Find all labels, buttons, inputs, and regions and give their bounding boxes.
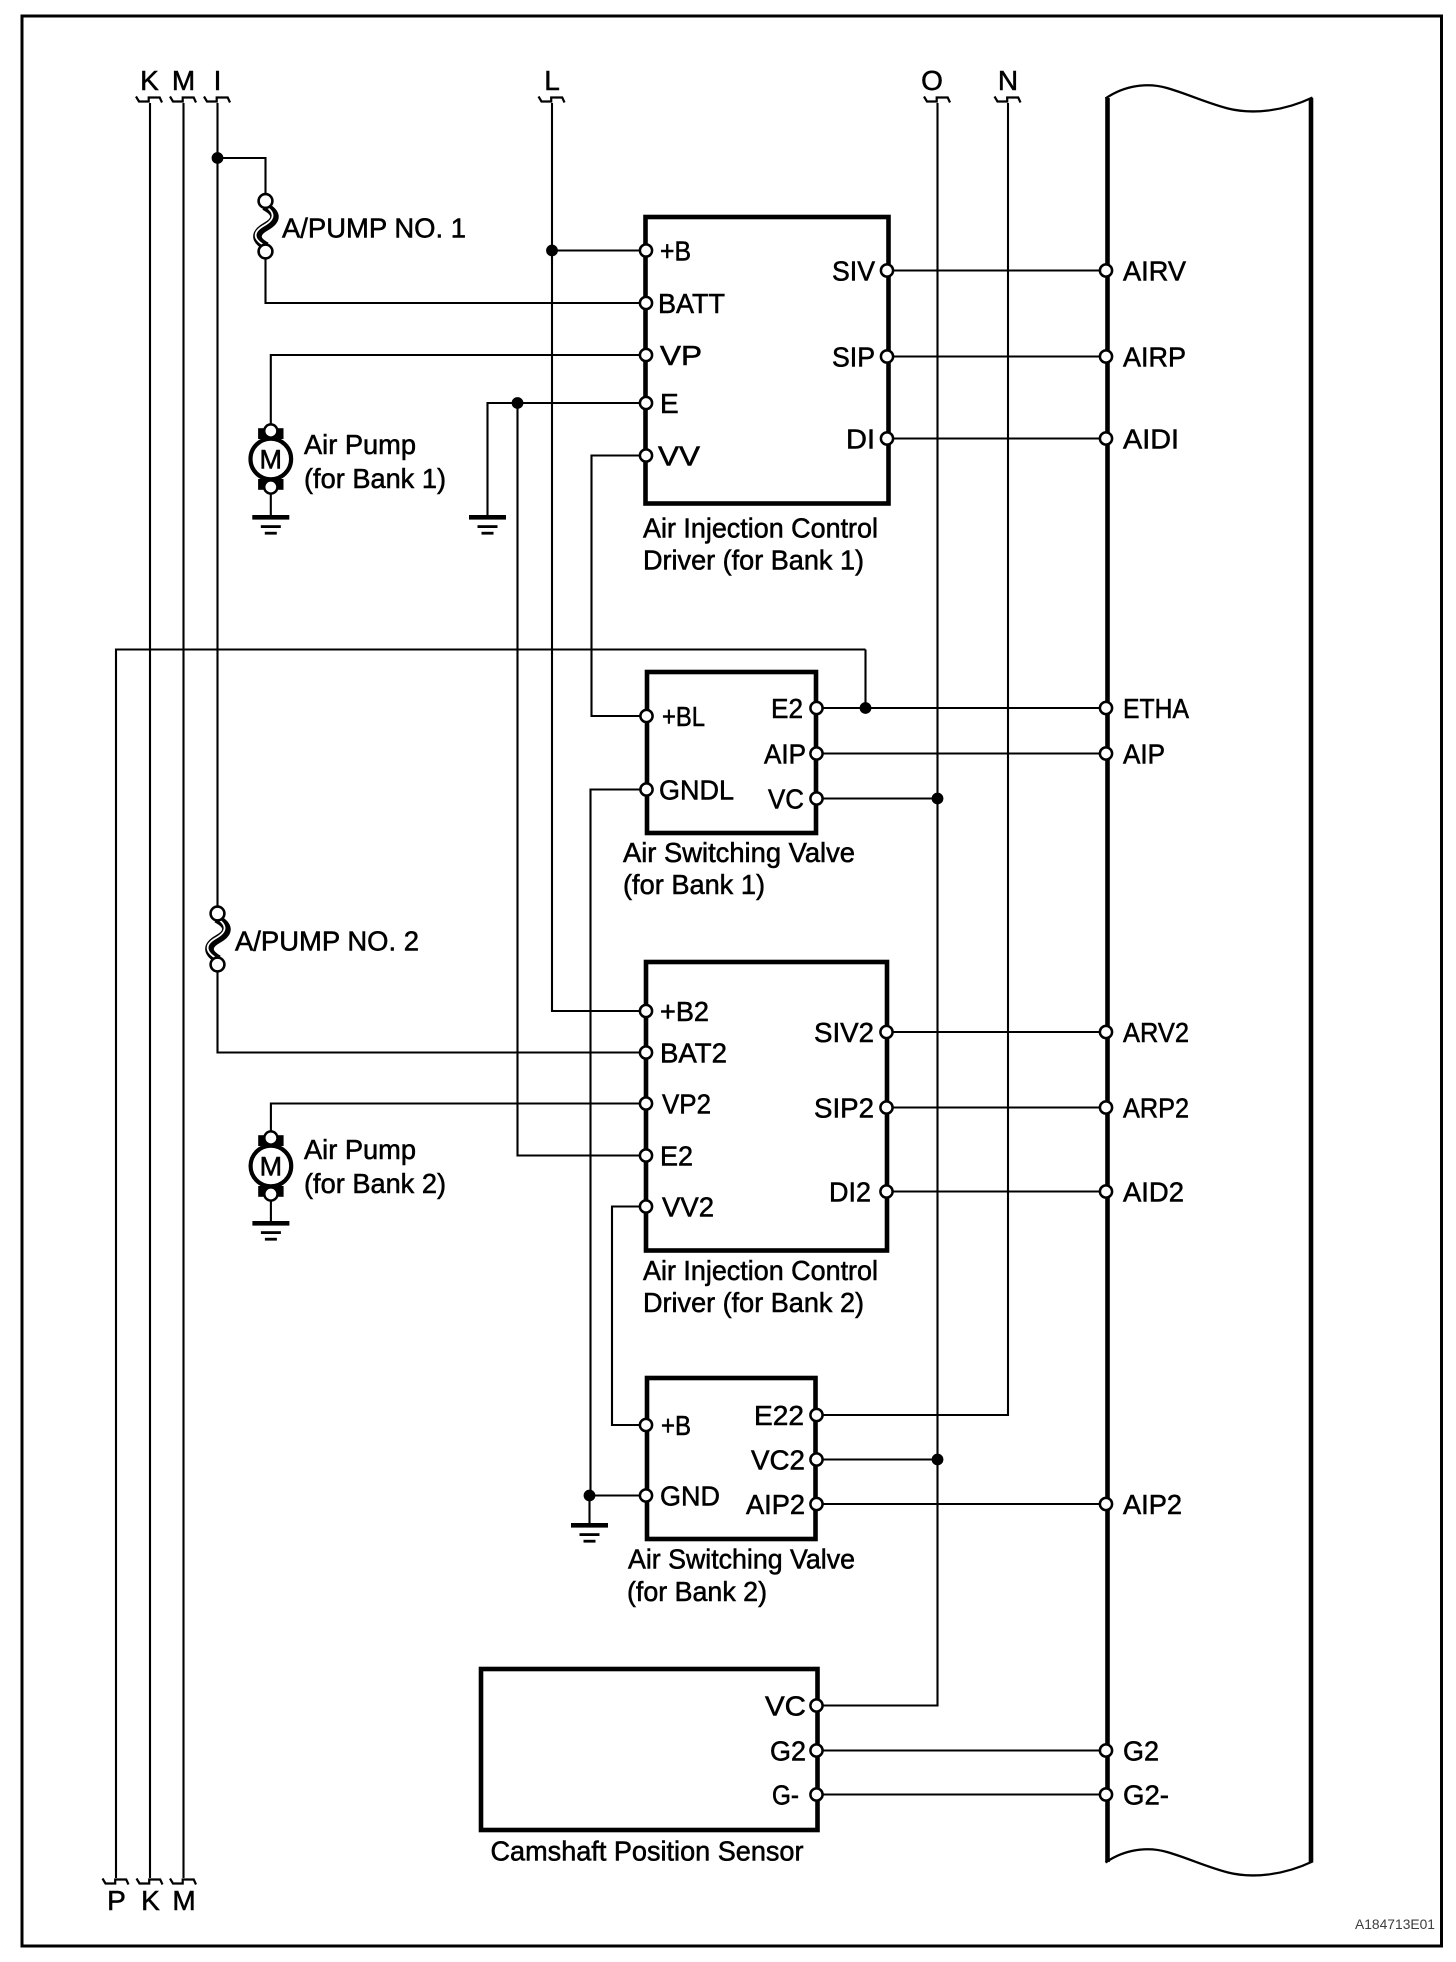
fuse A/PUMP NO. 1 [256, 194, 275, 258]
wire VC2 of valve 2 to net O [817, 1458, 938, 1460]
svg-text:AIRP: AIRP [1123, 342, 1186, 373]
svg-text:AIP: AIP [764, 739, 806, 770]
svg-text:DI: DI [846, 424, 875, 455]
svg-text:+B: +B [661, 1410, 691, 1441]
svg-text:VP: VP [660, 340, 702, 371]
svg-text:GND: GND [660, 1481, 720, 1512]
wire VP2 to air pump 2 [271, 1104, 646, 1139]
wire AIP2 of valve 2 to ECM AIP2 [817, 1503, 1107, 1505]
svg-text:L: L [544, 65, 560, 96]
svg-text:P: P [107, 1885, 126, 1916]
svg-text:(for Bank 2): (for Bank 2) [304, 1168, 446, 1199]
svg-text:(for Bank 1): (for Bank 1) [623, 869, 765, 900]
motor M air pump for bank 2 [251, 1131, 292, 1200]
svg-text:I: I [214, 65, 222, 96]
pin AIP2 valve 2 [810, 1498, 822, 1510]
wire ETHA feeder drop [864, 650, 866, 709]
wire SIV2 to ARV2 [887, 1031, 1107, 1033]
svg-text:VC2: VC2 [751, 1445, 805, 1476]
wire camshaft G2 to ECM G2 [817, 1749, 1107, 1751]
wire GNDL down to ground junction [591, 790, 647, 1496]
svg-text:SIV: SIV [832, 256, 875, 287]
wire DI to AIDI [887, 437, 1106, 439]
svg-text:VC: VC [768, 784, 804, 815]
svg-text:+BL: +BL [662, 701, 705, 732]
pin +B valve 2 [640, 1419, 652, 1431]
connector hook M (bottom) [170, 1879, 196, 1885]
svg-text:Air Pump: Air Pump [304, 429, 416, 460]
block Air Injection Control Driver (for Bank 1) [646, 217, 889, 504]
pin E2 driver 2 [640, 1149, 652, 1161]
svg-text:G2: G2 [1123, 1736, 1159, 1767]
svg-text:VC: VC [765, 1691, 806, 1722]
svg-text:K: K [141, 1885, 160, 1916]
wire net L vertical to +B2 [552, 103, 646, 1011]
wire air pump 1 to ground [270, 489, 272, 516]
svg-text:AIDI: AIDI [1123, 424, 1179, 455]
svg-text:Air Switching Valve: Air Switching Valve [623, 837, 855, 868]
ECM pin ARP2 [1100, 1101, 1112, 1113]
ECM pin AIRP [1100, 350, 1112, 362]
block Camshaft Position Sensor [481, 1669, 818, 1830]
svg-text:Driver (for Bank 1): Driver (for Bank 1) [643, 545, 864, 576]
svg-text:SIP2: SIP2 [814, 1093, 874, 1124]
junction ETHA feeder on E2 wire [860, 702, 872, 714]
junction VC on net O [932, 793, 944, 805]
svg-text:SIV2: SIV2 [814, 1017, 874, 1048]
connector hook K (bottom) [137, 1879, 163, 1885]
svg-text:AIP: AIP [1123, 739, 1165, 770]
svg-text:AIRV: AIRV [1123, 256, 1186, 287]
svg-text:+B: +B [660, 236, 691, 267]
svg-text:BATT: BATT [658, 288, 725, 319]
block Air Switching Valve (for Bank 2) [647, 1378, 816, 1539]
svg-text:A184713E01: A184713E01 [1355, 1916, 1435, 1932]
connector hook P (bottom) [103, 1879, 129, 1885]
pin +BL [640, 710, 652, 722]
wire net M vertical [182, 103, 184, 1878]
connector hook M (top) [170, 97, 196, 103]
ground E wire [469, 515, 506, 535]
ECM strip torn-paper bottom edge [1106, 1849, 1313, 1875]
wire net O vertical to camshaft VC [817, 103, 938, 1706]
ECM pin AIDI [1100, 432, 1112, 444]
pin GND valve 2 [640, 1489, 652, 1501]
svg-text:O: O [921, 65, 943, 96]
pin DI [881, 432, 893, 444]
svg-text:E22: E22 [754, 1400, 804, 1431]
svg-text:E: E [660, 388, 679, 419]
wire AIP of valve 1 to AIP [817, 752, 1107, 754]
svg-text:G-: G- [772, 1780, 799, 1811]
pin VC camshaft [810, 1699, 822, 1711]
svg-text:AIP2: AIP2 [746, 1489, 805, 1520]
svg-text:(for Bank 1): (for Bank 1) [304, 463, 446, 494]
wire fuse 2 output to BAT2 [218, 971, 647, 1053]
pin SIV2 [880, 1026, 892, 1038]
ECM pin ARV2 [1100, 1026, 1112, 1038]
wire E2 of valve 1 to ETHA [817, 707, 1107, 709]
pin GNDL [640, 783, 652, 795]
svg-text:VV: VV [658, 441, 700, 472]
wire VV down to +BL [592, 456, 647, 717]
svg-text:Air Injection Control: Air Injection Control [643, 513, 878, 544]
svg-text:N: N [998, 65, 1018, 96]
junction VC2 on net O [932, 1454, 944, 1466]
wire net P vertical + ETHA feeder horizontal [116, 650, 866, 1879]
junction GND ground node [584, 1490, 596, 1502]
pin DI2 [880, 1185, 892, 1197]
wire air pump 2 to ground [270, 1196, 272, 1222]
wire net L branch to +B [552, 249, 646, 251]
svg-text:GNDL: GNDL [659, 775, 734, 806]
pin E [640, 397, 652, 409]
wire SIP2 to ARP2 [887, 1106, 1107, 1108]
pin VC valve 1 [810, 792, 822, 804]
svg-text:Air Pump: Air Pump [304, 1134, 416, 1165]
svg-text:E2: E2 [771, 693, 803, 724]
svg-text:M: M [260, 445, 283, 475]
ECM connector strip right bar [1309, 98, 1314, 1863]
svg-text:E2: E2 [660, 1141, 693, 1172]
svg-text:A/PUMP NO. 1: A/PUMP NO. 1 [282, 213, 466, 244]
pin VV2 [640, 1200, 652, 1212]
wire SIP to AIRP [887, 355, 1106, 357]
wire VP to air pump 1 [271, 355, 646, 431]
ground valve 2 GND [571, 1523, 608, 1543]
ECM pin ETHA [1100, 702, 1112, 714]
pin G- camshaft [810, 1788, 822, 1800]
pin +B [640, 244, 652, 256]
junction net I to fuse 1 branch [212, 152, 224, 164]
svg-text:A/PUMP NO. 2: A/PUMP NO. 2 [235, 926, 419, 957]
pin VV [640, 449, 652, 461]
wire DI2 to AID2 [887, 1190, 1107, 1192]
motor M air pump for bank 1 [250, 424, 291, 493]
pin SIP [881, 350, 893, 362]
svg-text:K: K [140, 65, 159, 96]
svg-text:Driver (for Bank 2): Driver (for Bank 2) [643, 1287, 864, 1318]
block Air Injection Control Driver (for Bank 2) [646, 962, 887, 1251]
svg-text:+B2: +B2 [660, 996, 709, 1027]
svg-text:VP2: VP2 [662, 1089, 711, 1120]
svg-text:Camshaft Position Sensor: Camshaft Position Sensor [491, 1836, 804, 1867]
svg-text:Air Switching Valve: Air Switching Valve [628, 1544, 855, 1575]
wire E junction down to E2 of driver 2 [518, 403, 647, 1156]
ECM pin AIRV [1100, 264, 1112, 276]
ECM pin AIP [1100, 747, 1112, 759]
svg-text:SIP: SIP [832, 342, 875, 373]
pin BAT2 [640, 1046, 652, 1058]
ECM pin G2- [1100, 1788, 1112, 1800]
pin VP [640, 349, 652, 361]
ECM connector strip left bar [1105, 98, 1110, 1862]
svg-text:AIP2: AIP2 [1123, 1489, 1182, 1520]
wire net I vertical to fuse 2 [216, 103, 218, 907]
wire net I junction branch to fuse 1 [218, 158, 266, 195]
svg-text:(for Bank 2): (for Bank 2) [627, 1576, 767, 1607]
junction E wire to E2 link [512, 397, 524, 409]
wire net K vertical [149, 103, 151, 1878]
ECM pin G2 [1100, 1744, 1112, 1756]
pin E22 [810, 1409, 822, 1421]
block Air Switching Valve (for Bank 1) [647, 672, 816, 833]
svg-text:G2: G2 [770, 1736, 806, 1767]
pin BATT [640, 297, 652, 309]
pin AIP valve 1 [810, 747, 822, 759]
svg-text:M: M [172, 1885, 195, 1916]
connector hook K (top) [136, 97, 162, 103]
wire fuse 1 output to BATT [266, 258, 647, 303]
pin VP2 [640, 1097, 652, 1109]
junction net L to +B branch [546, 245, 558, 257]
svg-text:M: M [172, 65, 195, 96]
pin SIV [881, 264, 893, 276]
ECM strip torn-paper top edge [1106, 85, 1313, 111]
wire GND of valve 2 to ground junction [590, 1496, 647, 1525]
pin SIP2 [880, 1101, 892, 1113]
svg-text:G2-: G2- [1123, 1780, 1169, 1811]
connector hook N (top) [995, 97, 1021, 103]
ECM pin AID2 [1100, 1185, 1112, 1197]
pin VC2 [810, 1453, 822, 1465]
pin G2 camshaft [810, 1744, 822, 1756]
ground air pump 2 [252, 1221, 289, 1241]
ground air pump 1 [252, 515, 289, 535]
wire camshaft G- to ECM G2- [817, 1793, 1107, 1795]
connector hook L (top) [539, 97, 565, 103]
svg-text:ARP2: ARP2 [1123, 1093, 1189, 1124]
svg-text:AID2: AID2 [1123, 1177, 1184, 1208]
connector hook I (top) [204, 97, 230, 103]
svg-text:ARV2: ARV2 [1123, 1017, 1189, 1048]
svg-text:BAT2: BAT2 [660, 1038, 727, 1069]
wire SIV to AIRV [887, 269, 1106, 271]
svg-text:Air Injection Control: Air Injection Control [643, 1255, 878, 1286]
wire VC of valve 1 to net O [817, 797, 938, 799]
wire E to ground with branch [488, 403, 647, 516]
wire VV2 down to +B of valve 2 [612, 1207, 646, 1426]
pin +B2 [640, 1005, 652, 1017]
wire net N vertical to E22 [817, 103, 1009, 1415]
svg-text:ETHA: ETHA [1123, 693, 1189, 724]
connector hook O (top) [924, 97, 950, 103]
ECM pin AIP2 [1100, 1498, 1112, 1510]
svg-text:VV2: VV2 [662, 1192, 714, 1223]
svg-text:DI2: DI2 [829, 1177, 871, 1208]
pin E2 valve 1 [810, 702, 822, 714]
fuse A/PUMP NO. 2 [208, 907, 227, 972]
svg-text:M: M [260, 1152, 283, 1182]
